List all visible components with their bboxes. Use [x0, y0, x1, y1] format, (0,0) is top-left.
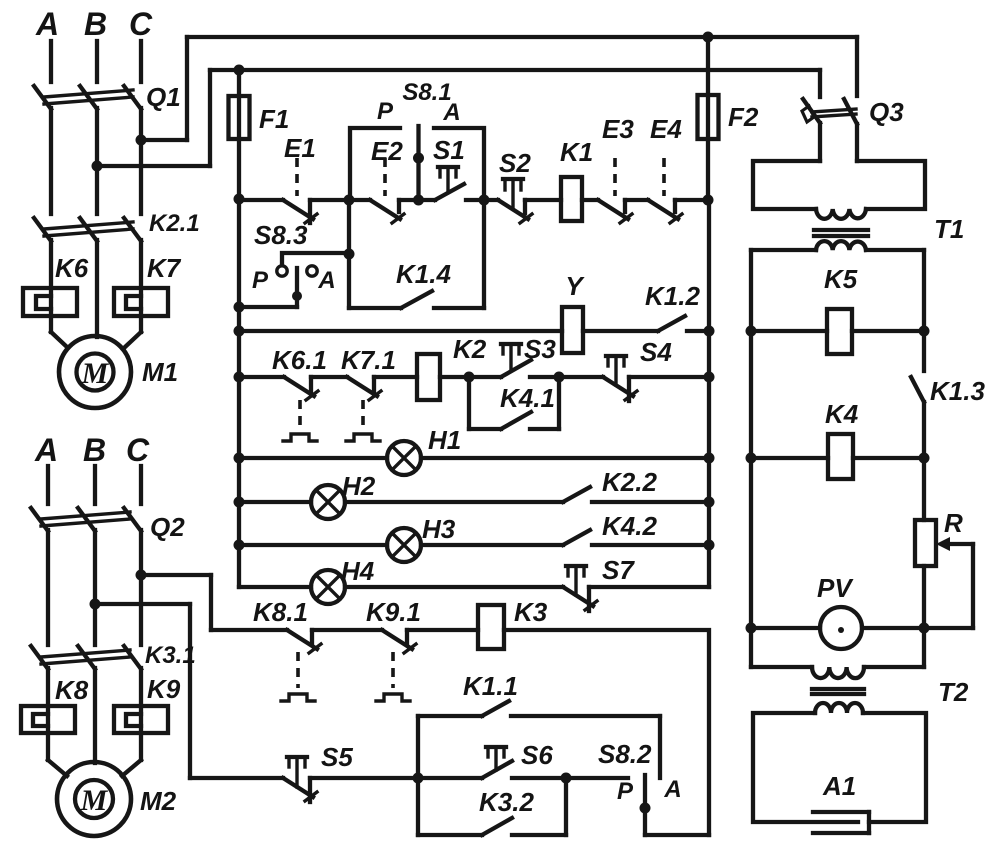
- wire right control rail: [707, 200, 711, 587]
- wire K3.1 pole A down: [46, 668, 50, 760]
- wire K3.1 pole C down: [139, 668, 143, 760]
- svg-text:M2: M2: [140, 786, 177, 816]
- wire secondary left rail down: [749, 250, 753, 667]
- contactor K3.1 linkage bar: [41, 650, 130, 664]
- wire phase C stub M2: [139, 466, 143, 504]
- wire Q3 left pole down: [818, 123, 822, 161]
- transformer T1 core: [814, 230, 868, 236]
- rheostat wiper arrow: [924, 537, 973, 628]
- selector S8.1 A-side bracket: [434, 128, 484, 199]
- breaker Q1 linkage bar: [44, 90, 133, 104]
- wire K4 line: [751, 456, 924, 460]
- selector S8.2 moving bar: [640, 775, 651, 835]
- breaker Q3 trip flag: [802, 106, 814, 122]
- wire E4 to right rail: [675, 198, 709, 202]
- dashed link E4: [662, 158, 666, 196]
- svg-text:H3: H3: [422, 514, 456, 544]
- wire K3 coil to S8.2 rail: [504, 630, 709, 835]
- transformer T2 primary winding: [812, 667, 864, 678]
- transformer T1 secondary winding: [816, 241, 866, 250]
- wire B tap to riser: [97, 164, 210, 168]
- svg-text:S2: S2: [499, 148, 531, 178]
- node C-phase tap M2: [136, 570, 147, 581]
- selector S8.3 P-side bracket: [282, 253, 348, 265]
- dashed link E2: [383, 158, 387, 196]
- svg-text:K1.4: K1.4: [396, 259, 451, 289]
- fuse F2: [698, 37, 719, 200]
- selector S8.1 moving bar: [413, 126, 424, 206]
- node right rail H3: [704, 540, 715, 551]
- svg-text:K1.3: K1.3: [930, 376, 985, 406]
- svg-text:F2: F2: [728, 102, 759, 132]
- wire K2.1 pole C down: [139, 240, 143, 332]
- breaker Q1 pole B blade: [80, 86, 97, 109]
- push-button S5 (NC): [283, 757, 317, 802]
- wire C tap to riser: [141, 138, 187, 142]
- svg-text:E1: E1: [284, 133, 316, 163]
- transformer T2 secondary winding: [815, 703, 863, 713]
- selector S8.3 feed stub: [239, 305, 297, 309]
- svg-text:B: B: [84, 6, 107, 42]
- relay coil K5: [827, 309, 852, 354]
- svg-text:T2: T2: [938, 677, 969, 707]
- wire pole C vertical: [139, 108, 143, 214]
- wire K1.4 branch right: [434, 306, 484, 310]
- svg-text:K1.1: K1.1: [463, 671, 518, 701]
- wire top rail: [187, 35, 857, 39]
- wire pole A vertical: [49, 108, 53, 214]
- svg-text:B: B: [83, 432, 106, 468]
- svg-text:S4: S4: [640, 337, 672, 367]
- svg-text:C: C: [126, 432, 150, 468]
- contact E4 (thermal NC): [648, 200, 682, 223]
- svg-text:S5: S5: [321, 742, 353, 772]
- contact K4.2 (NO): [563, 530, 590, 545]
- selector S8.3 moving bar: [292, 268, 302, 307]
- breaker Q3 right blade: [844, 99, 857, 124]
- breaker Q2 pole B blade: [78, 508, 95, 531]
- svg-text:K1.2: K1.2: [645, 281, 700, 311]
- wire second rail corner to Q3: [818, 70, 822, 97]
- wire T1 secondary left rail: [751, 248, 816, 252]
- breaker Q2 pole C blade: [124, 508, 141, 531]
- svg-text:H1: H1: [428, 425, 461, 455]
- svg-text:M1: M1: [142, 357, 178, 387]
- node left rail H1-line: [234, 453, 245, 464]
- wire K1.2 to right rail: [687, 329, 709, 333]
- wire phase B stub: [95, 41, 99, 82]
- wire riser to second rail: [208, 70, 212, 166]
- wire S4 to right rail: [629, 375, 709, 379]
- contact E3 (thermal NC): [598, 200, 632, 223]
- wire T2 secondary loop left: [753, 713, 858, 822]
- node K5 line left: [746, 326, 757, 337]
- svg-text:K8.1: K8.1: [253, 597, 308, 627]
- svg-text:F1: F1: [259, 104, 289, 134]
- breaker Q1 pole C blade: [124, 86, 141, 109]
- wire top rail corner to Q3: [855, 37, 859, 96]
- contactor K3.1 pole A blade: [31, 646, 48, 669]
- relay coil K4: [828, 434, 853, 479]
- breaker Q3 left blade: [803, 99, 820, 123]
- svg-text:M: M: [81, 357, 110, 390]
- svg-text:C: C: [129, 6, 153, 42]
- svg-text:K2.2: K2.2: [602, 467, 657, 497]
- node C-phase tap: [136, 135, 147, 146]
- wire pole C into motor: [124, 332, 141, 348]
- wire S3 to S4: [530, 375, 603, 379]
- node K4 line left: [746, 453, 757, 464]
- wire phase C stub: [139, 41, 143, 82]
- wire K2-line left: [239, 375, 284, 379]
- contact K1.1 bypass (NO): [418, 701, 660, 778]
- svg-text:H4: H4: [341, 556, 375, 586]
- wire line1 E1 to E2: [310, 198, 370, 202]
- breaker Q3 linkage bar: [812, 109, 856, 117]
- dashed link K7.1: [361, 400, 365, 428]
- node line1 / F2 / right rail: [703, 195, 714, 206]
- rheostat R: [915, 520, 936, 628]
- contact K1.2 (NO): [658, 316, 685, 331]
- svg-text:K6: K6: [55, 253, 89, 283]
- wire pole C into motor M2: [122, 760, 141, 776]
- contact K6.1 (NC): [284, 377, 318, 400]
- svg-text:K7.1: K7.1: [341, 345, 396, 375]
- svg-text:K4.2: K4.2: [602, 511, 657, 541]
- wire second rail: [210, 68, 820, 72]
- clutch coil K8: [21, 706, 75, 733]
- svg-text:E4: E4: [650, 114, 682, 144]
- node E1 output / S8.1 P branch: [344, 195, 355, 206]
- transformer T1 primary winding: [816, 209, 866, 219]
- wire right rail to T2: [922, 628, 926, 667]
- node left rail Y-line: [234, 326, 245, 337]
- contact K8.1 (NC): [287, 630, 321, 653]
- svg-text:E3: E3: [602, 114, 634, 144]
- wire phase B stub M2: [93, 466, 97, 504]
- wire K2.1 pole A down: [49, 240, 53, 332]
- node S6 output / K3.2: [561, 773, 572, 784]
- wire K1.4 riser to S1 output: [482, 200, 486, 308]
- node S1 output / K1.4 branch: [479, 195, 490, 206]
- svg-text:R: R: [944, 508, 963, 538]
- wire S1 to S2: [466, 198, 498, 202]
- push-button S7 (NC): [563, 566, 597, 611]
- svg-text:Y: Y: [565, 271, 585, 301]
- contact K3.2 bypass (NO): [418, 778, 566, 835]
- contactor K3.1 pole C blade: [124, 646, 141, 669]
- relay coil K1: [561, 177, 582, 221]
- wire T1 secondary right rail: [866, 248, 924, 252]
- svg-text:K3: K3: [514, 597, 548, 627]
- push-button S4 (NC): [603, 356, 637, 401]
- svg-text:K3.2: K3.2: [479, 787, 534, 817]
- node left rail S8.3: [234, 302, 245, 313]
- node right rail H1: [704, 453, 715, 464]
- actuator symbol K8.1: [281, 694, 315, 701]
- contact K1.4 (NO holding): [401, 291, 432, 308]
- svg-text:A: A: [317, 267, 335, 294]
- dashed link K6.1: [298, 400, 302, 428]
- breaker Q2 pole A blade: [31, 508, 48, 531]
- svg-text:T1: T1: [934, 214, 964, 244]
- contact K7.1 (NC): [347, 377, 381, 400]
- relay coil K3: [478, 605, 504, 649]
- contactor K2.1 pole B blade: [80, 218, 97, 241]
- clutch coil K7: [114, 288, 168, 316]
- svg-text:S1: S1: [433, 135, 465, 165]
- wire line1 E2 to S1: [399, 198, 435, 202]
- wire left control rail: [237, 199, 241, 587]
- lamp H4: [311, 570, 345, 604]
- wire H2 line: [239, 500, 563, 504]
- node S3 output / K4.1: [554, 372, 565, 383]
- clutch coil K9: [114, 706, 168, 733]
- contactor K2.1 linkage bar: [44, 222, 133, 236]
- wire S8.1/K1.4 vertical link: [347, 200, 351, 308]
- svg-text:K7: K7: [147, 253, 182, 283]
- wire PV line: [751, 626, 924, 630]
- wire T2 secondary loop right: [863, 713, 926, 822]
- node K4 line right: [919, 453, 930, 464]
- wire B tap to S5 riser: [95, 604, 283, 778]
- wire secondary right rail upper: [922, 250, 926, 371]
- node S8.3 bracket / K1.4 branch: [344, 249, 355, 260]
- selector S8.1 P-side bracket: [350, 128, 400, 199]
- contact K1.3 (NO): [911, 377, 924, 520]
- breaker Q2 linkage bar: [41, 512, 130, 526]
- svg-text:A1: A1: [822, 771, 856, 801]
- voltmeter PV: [820, 607, 862, 649]
- wire K3-line from C tap: [141, 575, 287, 630]
- svg-text:Q2: Q2: [150, 512, 185, 542]
- svg-text:K4.1: K4.1: [500, 383, 555, 413]
- wire K3.1 pole B down to motor: [93, 668, 97, 763]
- svg-text:K5: K5: [824, 264, 858, 294]
- wire phase A stub M2: [46, 466, 50, 504]
- wire Y-line left: [239, 329, 562, 333]
- svg-text:A: A: [35, 6, 59, 42]
- push-button S2 (NC): [498, 179, 532, 223]
- wire K1.4 branch left: [349, 306, 401, 310]
- svg-text:S8.3: S8.3: [254, 220, 308, 250]
- wire K5 line: [751, 329, 924, 333]
- contact K9.1 (NC): [382, 630, 416, 653]
- node PV line left: [746, 623, 757, 634]
- actuator symbol K7.1: [346, 434, 380, 441]
- svg-text:M: M: [80, 784, 109, 817]
- coil Y: [562, 307, 583, 353]
- node second rail / F1 branch: [234, 65, 245, 76]
- svg-text:A: A: [442, 99, 460, 126]
- breaker Q1 pole A blade: [34, 86, 51, 109]
- svg-text:A: A: [34, 432, 58, 468]
- wire Q2 pole C vertical: [139, 530, 143, 645]
- device A1 socket: [813, 812, 869, 833]
- selector S8.3 contact A: [307, 266, 317, 276]
- svg-text:K9.1: K9.1: [366, 597, 421, 627]
- wire pole B vertical: [95, 108, 99, 214]
- node K2/S3/K4.1: [464, 372, 475, 383]
- wire pole A into motor: [51, 332, 68, 348]
- svg-text:K3.1: K3.1: [145, 642, 196, 669]
- wire S8.2 to right rail: [645, 833, 709, 837]
- wire Q2 pole A vertical: [46, 530, 50, 645]
- contactor K2.1 pole C blade: [124, 218, 141, 241]
- wire E3 to E4: [625, 198, 648, 202]
- svg-text:H2: H2: [342, 471, 376, 501]
- svg-text:P: P: [617, 778, 634, 805]
- svg-text:E2: E2: [371, 136, 403, 166]
- svg-text:PV: PV: [817, 573, 854, 603]
- wire riser to top rail: [185, 37, 189, 140]
- dashed link E3: [613, 158, 617, 196]
- node B-phase tap M2: [90, 599, 101, 610]
- dashed link K8.1: [296, 652, 300, 688]
- node left rail H2-line: [234, 497, 245, 508]
- lamp H2: [311, 485, 345, 519]
- wire phase A stub: [49, 41, 53, 82]
- svg-text:S7: S7: [602, 555, 635, 585]
- lamp H3: [387, 528, 421, 562]
- wire K4.2 to right rail: [592, 543, 709, 547]
- transformer T2 primary line: [751, 665, 924, 669]
- wire K8.1 to K9.1: [312, 628, 382, 632]
- wire H1 line: [239, 456, 709, 460]
- wire Q3 right pole down: [855, 124, 859, 161]
- wire S2 to K1: [525, 198, 561, 202]
- wire S6 to S8.2: [512, 776, 628, 780]
- wire S5 to S6: [310, 776, 418, 780]
- clutch coil K6: [23, 288, 77, 316]
- node top rail / F2 branch: [703, 32, 714, 43]
- node right rail Y-line: [704, 326, 715, 337]
- push-button S6 (NO): [418, 747, 512, 778]
- wire pole A into motor M2: [48, 760, 67, 776]
- wire K2 coil to S3: [440, 375, 501, 379]
- contactor K3.1 pole B blade: [78, 646, 95, 669]
- node left rail line1: [234, 194, 245, 205]
- contactor K2.1 pole A blade: [34, 218, 51, 241]
- actuator symbol K6.1: [283, 434, 317, 441]
- wire line1 left segment: [239, 198, 283, 202]
- dashed link K9.1: [391, 652, 395, 688]
- svg-text:S8.2: S8.2: [598, 739, 652, 769]
- wire K1 to E3: [582, 198, 598, 202]
- svg-text:K8: K8: [55, 675, 89, 705]
- svg-text:A: A: [663, 776, 681, 803]
- wire Y coil to K1.2: [583, 329, 658, 333]
- node right rail H2: [704, 497, 715, 508]
- contact E2 (thermal NC): [370, 200, 404, 223]
- fuse F1: [229, 70, 250, 199]
- svg-text:Q3: Q3: [869, 97, 904, 127]
- wire K2.1 pole B down to motor: [95, 240, 99, 337]
- svg-text:K6.1: K6.1: [272, 345, 327, 375]
- selector S8.3 contact P: [277, 266, 287, 276]
- lamp H1: [387, 441, 421, 475]
- node B-phase tap: [92, 161, 103, 172]
- svg-text:K4: K4: [825, 399, 859, 429]
- node S5 output / K1.1 / K3.2: [413, 773, 424, 784]
- contact K4.1 bypass (NO): [469, 377, 559, 429]
- svg-text:P: P: [252, 267, 269, 294]
- node K5 line right: [919, 326, 930, 337]
- svg-text:P: P: [377, 98, 394, 125]
- wire H4 line: [239, 585, 563, 589]
- transformer T2 core: [812, 689, 864, 694]
- push-button S1 (NO): [435, 167, 464, 200]
- node left rail H3-line: [234, 540, 245, 551]
- contact K2.2 (NO): [563, 487, 590, 502]
- motor M2: [57, 762, 131, 836]
- transformer T1 primary loop: [753, 161, 925, 209]
- relay coil K2: [417, 354, 440, 400]
- svg-text:K2.1: K2.1: [149, 210, 200, 237]
- wire S7 to right rail: [589, 585, 709, 589]
- svg-text:S3: S3: [524, 334, 556, 364]
- svg-text:K9: K9: [147, 674, 181, 704]
- svg-text:K1: K1: [560, 137, 593, 167]
- node right rail K2-line: [704, 372, 715, 383]
- svg-text:Q1: Q1: [146, 82, 181, 112]
- wire K6.1 to K7.1: [311, 375, 347, 379]
- node PV line right: [919, 623, 930, 634]
- wire Q2 pole B vertical: [93, 530, 97, 645]
- contact E1 (thermal NC): [283, 200, 317, 223]
- svg-text:K2: K2: [453, 334, 487, 364]
- wire K2.2 to right rail: [592, 500, 709, 504]
- node left rail K2-line: [234, 372, 245, 383]
- push-button S3 (NO): [501, 344, 531, 377]
- actuator symbol K9.1: [376, 694, 410, 701]
- wire H3 line: [239, 543, 563, 547]
- wire K7.1 to K2 coil: [374, 375, 417, 379]
- wire K9.1 to K3 coil: [407, 628, 478, 632]
- dashed link E1: [295, 158, 299, 196]
- motor M1: [59, 336, 131, 408]
- svg-text:S6: S6: [521, 740, 553, 770]
